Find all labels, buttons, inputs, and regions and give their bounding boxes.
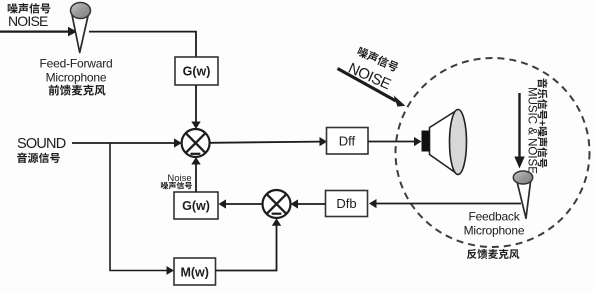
label 音乐信号+噪声信号 vertical (538, 79, 548, 168)
wire noise input arrow into feed-forward microphone (0, 31, 69, 33)
svg-text:Dfb: Dfb (336, 196, 356, 211)
mixer M2 multiplier with minus (263, 190, 291, 218)
wire SOUND branch down to M(w) (110, 143, 168, 271)
wire Dfb to mixer M2 (298, 203, 326, 205)
arrow music+noise down to feedback microphone (518, 93, 520, 158)
label 噪声信号 small (161, 182, 192, 190)
wire MIC2 to block Dfb (376, 203, 521, 205)
wire Dff to speaker (368, 141, 415, 143)
feedback microphone MIC2 (513, 171, 532, 218)
feed-forward microphone MIC1 (71, 3, 91, 53)
svg-text:Microphone: Microphone (464, 224, 525, 238)
block Dff (327, 128, 369, 155)
label 反馈麦克风 (467, 249, 519, 259)
svg-text:SOUND: SOUND (17, 136, 66, 152)
wire SOUND to mixer M1 (72, 142, 175, 144)
mixer M1 multiplier with minus (182, 129, 210, 157)
svg-text:G(w): G(w) (182, 199, 210, 213)
svg-text:Dff: Dff (339, 133, 356, 148)
wire G1 down to mixer M1 (195, 85, 197, 123)
wire mixer M1 to block Dff (210, 142, 321, 143)
label 前馈麦克风 (49, 85, 106, 96)
svg-text:G(w): G(w) (183, 65, 211, 79)
speaker SPK (422, 110, 467, 175)
label 噪声信号 diagonal (356, 46, 399, 73)
svg-text:MUSIC & NOISE: MUSIC & NOISE (526, 87, 538, 174)
block M(w) music filter (174, 258, 216, 285)
block G2 feedback filter G(w) (174, 192, 218, 219)
wire G2 up to mixer M1 (195, 163, 197, 192)
block G1 feed-forward filter G(w) (175, 57, 218, 85)
wire M(w) to mixer M2 (216, 225, 277, 271)
label 音源信号 (17, 153, 60, 163)
wire MIC1 to block G1 (89, 32, 196, 57)
svg-text:Microphone: Microphone (46, 71, 107, 85)
svg-text:M(w): M(w) (180, 266, 208, 280)
block Dfb (326, 191, 368, 217)
arrow external noise into quiet zone (338, 69, 397, 102)
svg-text:Feed-Forward: Feed-Forward (40, 57, 113, 71)
svg-text:NOISE: NOISE (8, 13, 48, 29)
dashed quiet-zone boundary (396, 58, 590, 247)
svg-text:Feedback: Feedback (468, 210, 520, 224)
wire mixer M2 to block G2 (226, 203, 262, 205)
label 噪声信号 top-left (8, 3, 51, 13)
